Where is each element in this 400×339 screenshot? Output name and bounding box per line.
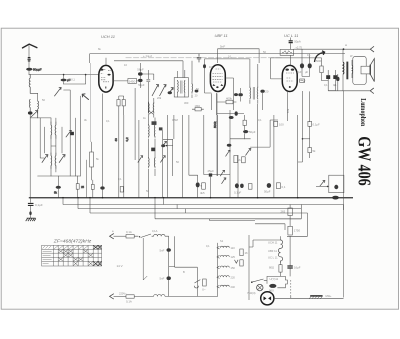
IFT1 coil b	[183, 80, 186, 93]
dot near box	[327, 186, 329, 188]
transformer core bar	[346, 62, 348, 80]
tube UCL11 envelope	[282, 65, 297, 91]
switch arrow S1a	[42, 155, 48, 163]
blob c	[227, 144, 232, 147]
speaker frame box	[353, 56, 366, 84]
grid resistor box tube3	[280, 49, 294, 55]
svg-text:0,2: 0,2	[125, 137, 129, 142]
table frame	[42, 245, 102, 266]
svg-text:0,1: 0,1	[118, 177, 122, 181]
HT corner left	[89, 54, 91, 63]
svg-text:240: 240	[231, 285, 236, 289]
IFT1 right coil	[191, 83, 194, 94]
bottom row: rect 4k5	[202, 183, 206, 189]
svg-text:110: 110	[231, 246, 236, 250]
net wires	[230, 115, 251, 139]
sq cap a	[326, 75, 330, 79]
band coil pair lower b	[54, 153, 57, 168]
wire x309 down	[309, 91, 311, 122]
switch to lamp	[253, 279, 267, 282]
svg-text:7kΩ(4): 7kΩ(4)	[247, 291, 256, 295]
AVC drop	[90, 63, 92, 142]
wire v x173.9	[173, 115, 174, 176]
antenna	[23, 44, 37, 48]
input coil L3	[37, 101, 40, 118]
blob in box	[334, 185, 338, 189]
svg-text:μF: μF	[305, 70, 308, 74]
cathode blob t1	[100, 186, 104, 189]
long wire down right	[343, 91, 345, 298]
trimmer arrow T1	[55, 88, 62, 97]
junction dot	[302, 138, 304, 140]
wire v x273.9	[273, 115, 275, 198]
svg-text:B: B	[183, 270, 185, 274]
arrow head top right	[370, 46, 374, 52]
cap at 199	[197, 54, 201, 63]
trimmer arrow T2	[82, 94, 88, 100]
dark cell bottom right	[93, 262, 101, 266]
svg-text:0,1μF: 0,1μF	[313, 123, 320, 127]
wire v x262.6	[262, 93, 264, 110]
sub bus 3	[90, 212, 308, 214]
wire v x297.7	[297, 115, 299, 198]
IFT2 core	[253, 87, 254, 100]
res 5k box	[308, 148, 312, 153]
ground symbol	[26, 218, 36, 221]
wire below tube2	[216, 94, 218, 177]
branch to L3	[30, 93, 38, 101]
svg-text:50μA: 50μA	[294, 40, 301, 44]
cap 50uF blob	[243, 130, 248, 133]
band coil pair upper	[50, 122, 53, 138]
sub bus 4	[155, 218, 301, 220]
mid coil pair upper a	[148, 124, 151, 138]
antenna coil L1	[29, 74, 30, 93]
line 57.9 right	[271, 57, 322, 59]
arrow bottom right	[370, 88, 374, 94]
wire row 102	[217, 101, 236, 103]
wire v x135	[134, 88, 136, 160]
bottom join line left	[38, 175, 81, 177]
svg-text:UC L 11: UC L 11	[268, 255, 278, 259]
dark cell top right	[93, 246, 101, 250]
svg-text:80Ω: 80Ω	[269, 266, 274, 270]
small box right tube3	[300, 79, 305, 82]
row labels	[43, 252, 52, 264]
wire tube3 grid left	[271, 58, 283, 79]
mid coil pair lower a	[148, 157, 151, 168]
table row lines	[42, 249, 102, 261]
wire mid tube2 right	[226, 78, 234, 110]
svg-text:0,1: 0,1	[206, 244, 210, 248]
sub bus lines	[63, 198, 344, 237]
capacitor 50pF dark	[26, 68, 32, 71]
resistor 400k below tube2	[226, 100, 233, 104]
trimmer cap lower	[138, 79, 143, 82]
tap chain vertical	[217, 243, 219, 297]
wire v x75	[74, 118, 76, 176]
tall resistor x91.5	[90, 152, 94, 167]
ground cap under bus	[28, 198, 43, 218]
cap blob left pair	[234, 93, 238, 96]
cap blob a	[300, 63, 304, 68]
svg-text:20: 20	[265, 90, 269, 94]
trimmer arrow T3	[66, 130, 71, 137]
switch sym	[194, 280, 200, 288]
res 0,1 box	[308, 121, 312, 126]
speaker cone bar	[370, 65, 371, 75]
resistor 1750	[288, 226, 292, 235]
blob L2 bottom	[28, 111, 33, 114]
cap 16uF	[287, 266, 292, 268]
capacitor 0.1uF blob	[61, 79, 67, 82]
resistor 0.1	[243, 120, 246, 125]
sw arrow r2	[222, 178, 226, 184]
wire v x63.6 loop	[64, 75, 86, 176]
svg-text:0,1: 0,1	[324, 83, 328, 87]
field tap blob	[336, 77, 339, 81]
tap 2	[217, 255, 229, 258]
bottom row rect c	[248, 184, 252, 190]
sw arrow r1	[220, 170, 224, 176]
wire lamp right	[274, 297, 344, 299]
svg-text:0,1: 0,1	[282, 185, 286, 189]
sub bus 1	[63, 204, 344, 206]
svg-text:+ Ca 2: + Ca 2	[143, 54, 152, 58]
wire x148	[147, 70, 149, 113]
svg-text:125: 125	[231, 255, 236, 259]
svg-text:25: 25	[81, 185, 85, 189]
x marks r2	[58, 250, 88, 253]
dark blob 960	[269, 284, 276, 288]
cap 5nF top	[167, 248, 171, 252]
tube UCH11 envelope	[99, 65, 113, 92]
wire v x138.9	[138, 120, 140, 198]
component rect 25	[76, 184, 79, 190]
rect 16 b	[240, 260, 243, 266]
trimmer cap 58pF upper	[138, 72, 143, 75]
pilot lamp	[261, 292, 274, 305]
switch arrow left	[31, 111, 38, 117]
wire v x86.5	[86, 160, 88, 198]
comp x197.7	[196, 182, 200, 187]
diode blob tube3 grid	[289, 41, 293, 43]
blob on 113.6	[235, 111, 238, 115]
choke bottom	[154, 295, 165, 297]
IFT1 box	[174, 78, 188, 97]
cap break x148	[146, 80, 150, 81]
svg-text:5nF: 5nF	[220, 45, 225, 49]
small rect right	[159, 127, 163, 130]
svg-text:100: 100	[279, 123, 284, 127]
x marks r5	[73, 262, 93, 266]
secondary coil	[351, 66, 354, 74]
wires sq	[322, 70, 336, 91]
dark blob mid	[151, 148, 155, 152]
switch drop wire	[143, 238, 147, 280]
line tube1 to IFT1	[106, 58, 183, 81]
x marks r4	[58, 258, 83, 262]
svg-text:0,1: 0,1	[106, 119, 110, 123]
h wire 139	[163, 139, 173, 145]
svg-text:50μF: 50μF	[249, 130, 256, 134]
svg-text:0,1A: 0,1A	[152, 229, 158, 233]
blob top	[229, 116, 234, 119]
osc coil pair b	[152, 102, 155, 114]
svg-text:5000: 5000	[316, 59, 322, 63]
x marks r3	[63, 253, 93, 257]
padder cap dark	[71, 132, 74, 135]
bottom link line	[30, 117, 51, 119]
sw arrow mid b	[160, 156, 165, 163]
small coil boxes under tube1	[117, 100, 120, 106]
osc coil wires	[149, 98, 154, 118]
fuse bottom	[126, 295, 134, 298]
svg-text:0,1A: 0,1A	[126, 300, 132, 304]
svg-text:14 V: 14 V	[117, 264, 123, 268]
cap 25uF	[209, 173, 212, 176]
svg-text:UC L 11: UC L 11	[284, 33, 298, 38]
comp rect U	[203, 279, 207, 286]
svg-text:1450: 1450	[129, 79, 136, 83]
wire v x230	[229, 110, 231, 198]
component rect b	[91, 184, 94, 189]
small circle sym	[257, 284, 263, 290]
cap blob right of IFT2 20	[260, 90, 264, 93]
mid coil wires	[149, 118, 156, 198]
wire v x287.7	[287, 92, 289, 121]
mid chain vertical	[248, 235, 250, 300]
svg-text:150: 150	[231, 266, 236, 270]
svg-text:16: 16	[245, 251, 249, 255]
svg-text:300: 300	[184, 101, 189, 105]
bottom row blob d	[267, 183, 271, 188]
blob grid tube2	[203, 64, 206, 68]
arrows c	[226, 150, 231, 156]
wire down x302.5	[298, 91, 303, 162]
choke top	[154, 234, 165, 236]
component R on bus a	[56, 186, 61, 189]
resistor 100 box	[274, 121, 278, 126]
svg-text:MΩ+: MΩ+	[326, 294, 332, 298]
svg-text:220V~: 220V~	[119, 292, 127, 296]
V mark	[235, 260, 239, 263]
tap 3	[217, 266, 229, 269]
bottom row blob b	[240, 184, 244, 188]
box around pwr	[249, 219, 308, 247]
svg-text:2×0,1: 2×0,1	[68, 78, 75, 82]
wire	[63, 75, 65, 84]
wire L2 to bus	[29, 115, 31, 198]
mid coil pair upper b	[153, 124, 156, 138]
wire v x80	[79, 96, 81, 176]
wire v tube1 cathode	[102, 94, 104, 198]
mains line bottom arrow	[110, 294, 114, 299]
speaker driver rect	[361, 66, 370, 74]
osc coil pair	[148, 102, 151, 114]
wire v x162.7	[162, 130, 164, 197]
svg-text:16μF: 16μF	[294, 266, 301, 270]
svg-text:265: 265	[281, 210, 286, 214]
wire left tube2	[205, 64, 212, 93]
IFT1 coil a	[177, 80, 180, 93]
bottom row rect e	[277, 183, 281, 189]
output transformer primary coil	[342, 62, 345, 74]
svg-text:400k: 400k	[226, 96, 232, 100]
right bends	[209, 205, 343, 237]
wire v x167.7	[167, 115, 169, 198]
resistor 265	[288, 208, 292, 216]
line over tube2	[218, 49, 260, 63]
blob right of IFT1	[195, 90, 199, 93]
h wire 174.6	[204, 174, 230, 176]
osc trim component	[152, 121, 157, 125]
svg-text:220: 220	[231, 275, 236, 279]
svg-text:0,1A: 0,1A	[126, 230, 132, 234]
svg-text:1M: 1M	[209, 65, 213, 69]
anode curve arc	[315, 51, 325, 62]
wire x290 down	[290, 296, 292, 298]
wires trimmer	[137, 63, 154, 88]
wire v x188.9	[188, 115, 190, 175]
svg-text:1750: 1750	[294, 229, 301, 233]
bus junction dots	[62, 197, 298, 199]
wire bottom to junction	[134, 295, 153, 297]
lamp bowtie	[264, 296, 272, 300]
wire v x217.5	[217, 115, 219, 176]
svg-text:UCH 11: UCH 11	[268, 240, 278, 244]
socket box	[267, 276, 287, 287]
svg-text:U(Y)11: U(Y)11	[270, 277, 279, 281]
svg-text:UBF 11: UBF 11	[215, 33, 228, 38]
speaker wires	[343, 49, 352, 90]
blob on bus	[332, 196, 339, 200]
resistor 1450	[128, 79, 137, 84]
input coil L2	[28, 100, 31, 112]
sw arrow mid a	[138, 156, 143, 163]
svg-text:50μF: 50μF	[264, 190, 271, 194]
svg-text:500k: 500k	[213, 121, 217, 128]
cap 5nF bottom	[167, 276, 171, 280]
h wire 147	[250, 120, 278, 147]
IFT2 wires	[250, 59, 258, 104]
svg-text:0,1: 0,1	[258, 118, 262, 122]
IFT2 coil b	[256, 87, 259, 100]
wire row 113.6	[217, 113, 244, 115]
line from tube2 top area	[205, 59, 250, 64]
svg-text:UCH 11: UCH 11	[101, 34, 115, 39]
cap blob left of IFT2	[238, 93, 243, 96]
wire h 175	[189, 175, 198, 182]
svg-text:+2,75: +2,75	[295, 46, 302, 50]
tap 5	[217, 285, 229, 288]
svg-text:1MΩ: 1MΩ	[195, 104, 201, 108]
chassis bar	[310, 295, 322, 297]
tube UCL11 electrodes	[286, 69, 295, 89]
wires blobs	[302, 49, 310, 76]
svg-text:GW 406: GW 406	[355, 136, 375, 186]
wire v x182.7	[182, 115, 184, 198]
wire v x123.8	[123, 115, 125, 198]
svg-text:2μF: 2μF	[297, 70, 302, 74]
tap 4	[217, 276, 229, 279]
bottom row blob a	[235, 183, 239, 188]
res vert outline a	[234, 156, 238, 163]
drops from bus	[63, 198, 186, 219]
resistor 1M left	[195, 108, 201, 111]
mains line bottom	[114, 295, 127, 297]
res vert outline b	[242, 157, 246, 163]
svg-text:0,1μF: 0,1μF	[35, 203, 43, 207]
wire v x211.5 tube2	[212, 93, 217, 115]
AVC dashed line	[126, 57, 283, 59]
header hatch	[43, 246, 89, 249]
tube UCH11 electrodes	[100, 69, 111, 89]
speaker cone	[370, 59, 374, 82]
mid coil pair lower b	[153, 157, 156, 168]
table col lines	[53, 245, 98, 266]
svg-text:4k5: 4k5	[200, 191, 205, 195]
svg-text:UBF 11: UBF 11	[268, 249, 277, 253]
mains line top arrow	[110, 234, 114, 239]
wire to junction	[165, 236, 169, 296]
switch mains	[134, 234, 153, 238]
svg-text:40: 40	[114, 138, 118, 142]
var cap arrow a	[152, 85, 159, 96]
wire top heater	[253, 236, 281, 247]
line down right of tube3	[290, 38, 292, 66]
svg-text:S1: S1	[220, 239, 224, 243]
main ground bus	[29, 197, 353, 199]
sub bus 2	[78, 208, 301, 210]
fuse 0,1A	[126, 235, 134, 238]
tube UBF11 electrodes	[213, 69, 224, 88]
IFT2 coil a	[249, 87, 252, 100]
wire to grid	[29, 74, 99, 76]
svg-text:0,5M: 0,5M	[172, 118, 178, 122]
svg-text:20k: 20k	[157, 96, 162, 100]
arrow up right	[246, 149, 251, 156]
svg-text:50μμF: 50μμF	[33, 68, 42, 72]
mains line top	[114, 235, 127, 237]
L wire from junction	[169, 236, 198, 296]
bottom line speaker	[328, 90, 370, 92]
capacitor C-ant series blob	[28, 58, 30, 61]
blob arrow mid	[162, 141, 167, 146]
top line to speaker with arrow	[294, 48, 371, 50]
wire v x118.8	[118, 115, 120, 198]
wire v x257.6	[257, 104, 259, 198]
rect 16 a	[240, 249, 243, 256]
svg-text:10k: 10k	[286, 108, 290, 113]
band coil pair lower	[50, 153, 53, 168]
wires IFT1	[178, 61, 192, 98]
switch arrow S1b	[59, 155, 65, 163]
var cap arrow b	[160, 85, 167, 96]
band coil pair upper b	[54, 122, 57, 138]
cap blob b	[308, 63, 312, 68]
sq cap b	[333, 75, 337, 79]
svg-text:U~: U~	[202, 288, 206, 292]
tap 1	[217, 246, 229, 249]
power box lower	[329, 175, 344, 193]
arrow near box	[320, 181, 325, 187]
svg-text:Lumophon: Lumophon	[359, 98, 368, 127]
svg-text:0,1: 0,1	[333, 83, 337, 87]
svg-text:58μF: 58μF	[137, 68, 144, 72]
heater res	[279, 265, 282, 272]
coil link wires	[40, 118, 62, 176]
